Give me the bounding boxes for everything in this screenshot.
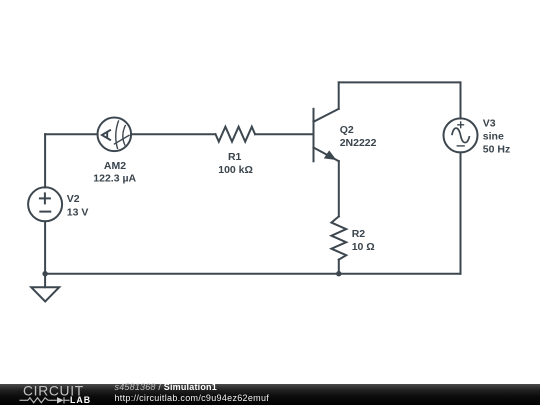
CircuitLab logo resistor-diode art	[20, 397, 70, 403]
svg-text:R1: R1	[228, 151, 242, 163]
svg-text:sine: sine	[483, 130, 504, 142]
svg-text:R2: R2	[352, 228, 366, 240]
svg-text:13 V: 13 V	[67, 207, 89, 219]
svg-text:AM2: AM2	[104, 160, 126, 172]
ground	[31, 287, 59, 301]
wire top rail to V3	[339, 81, 461, 83]
V2 minus sign	[39, 211, 51, 213]
svg-text:100 kΩ: 100 kΩ	[218, 164, 253, 176]
wire V2 bottom lead	[44, 221, 46, 273]
wire node row left segment to AM2	[45, 133, 98, 135]
V3 sine wave	[452, 128, 470, 143]
voltage source V2 circle	[28, 187, 62, 221]
wire V3 top lead	[460, 82, 462, 118]
svg-text:2N2222: 2N2222	[340, 137, 377, 149]
ammeter A letter	[102, 130, 111, 141]
resistor R1	[216, 127, 256, 142]
wire AM2 to R1	[131, 133, 216, 135]
svg-text:V3: V3	[483, 117, 496, 129]
node junction dot at ground	[42, 271, 47, 276]
svg-text:10 Ω: 10 Ω	[352, 241, 375, 253]
svg-text:V2: V2	[67, 193, 80, 205]
voltage source V3 circle	[444, 118, 478, 152]
ammeter AM2	[98, 118, 132, 152]
wire R2 to bottom rail	[338, 260, 340, 274]
svg-text:s4581368 / Simulation1: s4581368 / Simulation1	[115, 382, 217, 392]
svg-text:LAB: LAB	[70, 395, 91, 405]
V2 plus sign	[39, 192, 51, 204]
svg-text:http://circuitlab.com/c9u94ez6: http://circuitlab.com/c9u94ez62emuf	[115, 393, 270, 403]
transistor Q2	[314, 109, 339, 162]
V3 minus sign	[457, 145, 465, 147]
svg-text:122.3 µA: 122.3 µA	[93, 172, 136, 184]
CircuitLab logo diode triangle	[57, 397, 64, 403]
svg-text:50 Hz: 50 Hz	[483, 144, 510, 156]
wire Q2 collector up	[338, 82, 340, 108]
resistor R2	[331, 216, 346, 259]
wire V3 bottom to ground rail	[460, 152, 462, 273]
wire V2 top to node row	[44, 134, 46, 187]
wire Q2 emitter to R2	[338, 161, 340, 216]
node junction dot at R2 bottom	[336, 271, 341, 276]
wire ground stem	[44, 274, 46, 288]
wire R1 to Q2 base	[255, 133, 314, 135]
wire bottom rail	[45, 273, 460, 275]
svg-text:Q2: Q2	[340, 124, 354, 136]
V3 plus sign	[457, 121, 464, 128]
